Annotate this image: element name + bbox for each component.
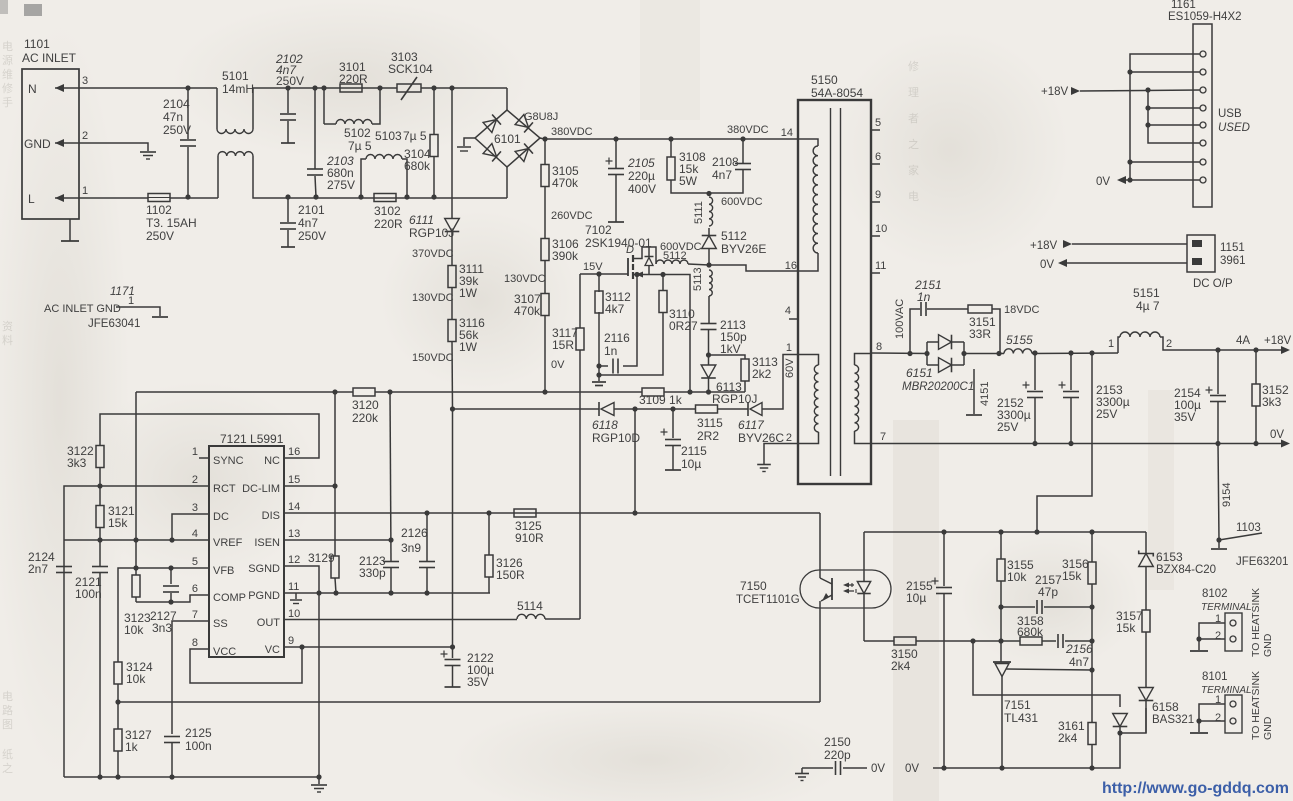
svg-text:4: 4: [785, 305, 791, 317]
core lines: [830, 108, 832, 476]
svg-text:2: 2: [786, 432, 792, 444]
capacitor 2150 220p: [802, 767, 833, 769]
svg-text:路: 路: [2, 704, 13, 717]
svg-text:10k: 10k: [124, 623, 144, 637]
svg-text:SYNC: SYNC: [213, 455, 244, 467]
svg-text:DC-LIM: DC-LIM: [242, 483, 280, 495]
inductor 5151 4u7: [1118, 337, 1120, 353]
svg-text:VFB: VFB: [213, 565, 234, 577]
svg-text:5112: 5112: [663, 250, 687, 262]
svg-text:0V: 0V: [1270, 429, 1284, 441]
svg-text:12: 12: [288, 554, 300, 566]
svg-text:14: 14: [781, 127, 793, 139]
pin stubs 5 6 9 10 11: [871, 129, 880, 131]
capacitor 2154 100u 35V: [1215, 347, 1220, 352]
svg-text:220p: 220p: [824, 748, 851, 762]
resistor 3123 10k: [132, 575, 140, 597]
resistor 3161 2k4: [1088, 723, 1096, 745]
resistor 3156 15k: [1091, 532, 1093, 562]
resistor 3150 2k4: [864, 640, 894, 642]
diode 6118 RGP10D: [598, 402, 600, 416]
svg-text:15: 15: [288, 474, 300, 486]
svg-text:10µ: 10µ: [681, 457, 701, 471]
svg-text:TERMINAL: TERMINAL: [1201, 602, 1252, 613]
wire secondary 0V rail: [933, 733, 1120, 768]
wire 380VDC rail: [540, 138, 798, 139]
capacitor 2153 3300u 25V: [1068, 350, 1073, 355]
svg-text:1: 1: [786, 342, 792, 354]
resistor 3125 910R: [514, 509, 536, 517]
svg-text:7102: 7102: [585, 223, 612, 237]
svg-text:2k2: 2k2: [752, 367, 772, 381]
jumper 4151 ground: [973, 369, 975, 414]
resistor 3115 2R2: [673, 408, 696, 410]
connection 1103 JFE63201: [1219, 533, 1262, 540]
wire usb pins 4 5 6: [1148, 90, 1200, 143]
svg-text:BAS321: BAS321: [1152, 714, 1194, 726]
svg-text:910R: 910R: [515, 531, 544, 545]
VDR 3103 SCK104: [397, 84, 421, 92]
svg-text:100VAC: 100VAC: [894, 299, 906, 339]
opto light arrows: [846, 584, 854, 586]
svg-text:者: 者: [908, 112, 919, 125]
svg-text:100n: 100n: [185, 739, 212, 753]
svg-text:6: 6: [875, 151, 881, 163]
capacitor 2121 100n: [99, 540, 101, 566]
svg-text:1: 1: [1108, 338, 1114, 350]
wire 0V rail: [871, 443, 1284, 445]
svg-text:6111: 6111: [409, 213, 434, 227]
svg-text:2n7: 2n7: [28, 562, 48, 576]
capacitor 2126 3n9: [426, 513, 428, 561]
resistor 3157 15k: [1142, 610, 1150, 632]
svg-text:2: 2: [192, 474, 198, 486]
svg-text:2156: 2156: [1065, 642, 1093, 656]
svg-text:L: L: [28, 192, 35, 206]
svg-text:2108: 2108: [712, 155, 739, 169]
svg-text:2101: 2101: [298, 203, 325, 217]
op-amp U7121 L5991 controller IC: [209, 446, 284, 657]
svg-text:7151: 7151: [1004, 698, 1031, 712]
resistor 3113 2k2: [709, 355, 746, 359]
svg-text:之: 之: [2, 761, 13, 775]
svg-text:4n7: 4n7: [298, 216, 318, 230]
wire usb pin2: [1130, 71, 1200, 73]
svg-text:9154: 9154: [1221, 483, 1233, 507]
svg-text:SGND: SGND: [248, 563, 280, 575]
wire DIS pin14: [284, 512, 820, 514]
svg-text:14mH: 14mH: [222, 82, 254, 96]
svg-text:+18V: +18V: [1264, 335, 1292, 347]
svg-text:6117: 6117: [738, 418, 765, 432]
svg-text:TCET1101G: TCET1101G: [736, 594, 800, 606]
resistor 3116 56k 1W: [448, 320, 456, 342]
resistor 3104 680k: [431, 85, 436, 90]
svg-text:纸: 纸: [2, 748, 13, 761]
capacitor 2155 10u: [943, 532, 945, 586]
aux winding pin1-2: [798, 355, 819, 366]
capacitor 2116 1n: [596, 363, 601, 368]
ground at bridge left: [464, 138, 475, 146]
svg-text:3102: 3102: [374, 204, 401, 218]
resistor 3107 470k: [541, 294, 549, 316]
pin 4 stub: [789, 318, 798, 320]
diode 6158 BAS321: [1139, 688, 1154, 701]
svg-text:T3. 15AH: T3. 15AH: [146, 216, 197, 230]
resistor 3108 15k 5W: [668, 136, 673, 141]
ground at 2150: [801, 768, 803, 773]
wire VCC pin8 loop: [190, 647, 302, 683]
svg-text:JFE63201: JFE63201: [1236, 556, 1288, 568]
node drain junction: [706, 262, 711, 267]
transformer 5150 54A-8054: [798, 100, 871, 484]
svg-text:BZX84-C20: BZX84-C20: [1156, 564, 1216, 576]
svg-text:35V: 35V: [467, 675, 488, 689]
svg-text:2R2: 2R2: [697, 429, 719, 443]
svg-text:7150: 7150: [740, 579, 767, 593]
wire to 5155: [964, 353, 1004, 355]
svg-text:1: 1: [128, 295, 134, 307]
svg-text:D: D: [626, 244, 634, 256]
inductor 5103 7u5: [358, 194, 363, 199]
svg-text:1: 1: [192, 446, 198, 458]
resistor 3101 220R: [321, 85, 326, 90]
svg-text:1W: 1W: [459, 340, 478, 354]
svg-text:15k: 15k: [108, 516, 128, 530]
inductor 5155: [1004, 349, 1032, 354]
svg-text:1W: 1W: [459, 286, 478, 300]
wire ground line to optocoupler: [118, 701, 820, 703]
svg-text:http://www.go-gddq.com: http://www.go-gddq.com: [1102, 780, 1289, 797]
svg-text:3n9: 3n9: [401, 541, 421, 555]
svg-text:15V: 15V: [583, 261, 603, 273]
ground below 2116: [592, 381, 606, 383]
capacitor 2152 3300u 25V: [1032, 350, 1037, 355]
svg-text:0V: 0V: [551, 359, 565, 371]
capacitor 2124 2n7: [56, 566, 72, 568]
primary winding pin14-16: [798, 139, 818, 146]
svg-text:400V: 400V: [628, 182, 656, 196]
diode to 6158: [1113, 714, 1128, 727]
resistor 3124 10k: [114, 662, 122, 684]
svg-text:BYV26E: BYV26E: [721, 242, 766, 256]
svg-text:修: 修: [908, 59, 919, 73]
optocoupler 7150 TCET1101G: [800, 570, 891, 608]
svg-text:3115: 3115: [697, 416, 723, 430]
svg-text:5151: 5151: [1133, 286, 1160, 300]
svg-text:3n3: 3n3: [152, 621, 172, 635]
svg-text:5112: 5112: [721, 229, 747, 243]
svg-text:+18V: +18V: [1030, 240, 1058, 252]
wire DC pin3: [172, 514, 209, 540]
svg-text:DIS: DIS: [262, 510, 280, 522]
svg-text:250V: 250V: [298, 229, 326, 243]
svg-text:0R27: 0R27: [669, 319, 698, 333]
svg-text:250V: 250V: [276, 74, 304, 88]
svg-text:5: 5: [875, 117, 881, 129]
resistor 3151 33R: [968, 305, 992, 313]
svg-text:25V: 25V: [1096, 407, 1117, 421]
svg-text:600VDC: 600VDC: [721, 196, 763, 208]
wire VREF pin4: [64, 539, 209, 541]
svg-text:DC O/P: DC O/P: [1193, 278, 1233, 290]
svg-text:2104: 2104: [163, 97, 190, 111]
svg-text:DC: DC: [213, 511, 229, 523]
pin 2 GND: [55, 142, 79, 144]
svg-text:1103: 1103: [1236, 522, 1261, 534]
svg-text:4µ 7: 4µ 7: [1136, 299, 1160, 313]
svg-text:10k: 10k: [126, 672, 146, 686]
svg-text:1151: 1151: [1220, 242, 1245, 254]
wire usb pin7: [1130, 161, 1200, 163]
svg-text:USED: USED: [1218, 122, 1250, 134]
svg-text:修: 修: [2, 81, 13, 95]
svg-text:130VDC: 130VDC: [412, 292, 454, 304]
resistor 3110 0R27: [660, 272, 665, 277]
capacitor 2101 4n7: [285, 194, 290, 199]
fuse 1102 T3.15AH: [148, 194, 170, 202]
svg-text:资: 资: [2, 320, 13, 333]
pin 1 L: [55, 197, 86, 199]
diode 6117 BYV26C: [717, 408, 748, 410]
svg-text:JFE63041: JFE63041: [88, 318, 140, 330]
svg-text:47p: 47p: [1038, 585, 1058, 599]
svg-text:16: 16: [288, 446, 300, 458]
svg-text:0V: 0V: [1040, 259, 1054, 271]
TL431 7151: [993, 661, 1011, 663]
svg-text:60V: 60V: [784, 358, 796, 378]
svg-text:3k3: 3k3: [1262, 395, 1282, 409]
wire COMP pin6: [136, 595, 209, 602]
svg-text:15k: 15k: [1062, 569, 1082, 583]
diode 6113 RGP10J: [701, 365, 716, 378]
svg-text:9: 9: [875, 189, 881, 201]
capacitor 2115 10u: [672, 409, 674, 438]
svg-text:2k4: 2k4: [1058, 731, 1078, 745]
svg-text:电: 电: [908, 190, 919, 203]
svg-text:220R: 220R: [339, 72, 368, 86]
wire VC pin9: [284, 646, 453, 648]
svg-text:6158: 6158: [1152, 700, 1179, 714]
resistor 3106 390k: [541, 239, 549, 261]
opto transistor side: [819, 513, 821, 578]
svg-text:SS: SS: [213, 618, 228, 630]
svg-text:7: 7: [880, 431, 886, 443]
svg-text:470k: 470k: [514, 304, 541, 318]
svg-text:4n7: 4n7: [712, 168, 732, 182]
wire x453 vertical: [452, 409, 454, 647]
svg-text:5114: 5114: [517, 599, 543, 613]
capacitor 2103 680n: [312, 85, 317, 90]
svg-text:5111: 5111: [693, 201, 705, 224]
svg-text:18VDC: 18VDC: [1004, 304, 1040, 316]
svg-text:GND: GND: [1262, 633, 1274, 657]
capacitor 2102 4n7: [285, 85, 290, 90]
connector 1101 AC INLET: [22, 69, 79, 219]
svg-text:220R: 220R: [374, 217, 403, 231]
wire pin8 100VAC line: [871, 352, 927, 355]
resistor 3122 3k3: [96, 446, 104, 468]
svg-text:TO HEATSINK: TO HEATSINK: [1250, 588, 1262, 657]
svg-text:GND: GND: [24, 137, 51, 151]
wire VFB pin5: [118, 568, 209, 662]
svg-text:11: 11: [288, 581, 299, 593]
svg-text:5103: 5103: [375, 129, 402, 143]
svg-text:3129: 3129: [308, 551, 335, 565]
svg-text:OUT: OUT: [257, 617, 281, 629]
svg-text:8102: 8102: [1202, 588, 1228, 600]
wire 6118 junction to DIS: [634, 409, 636, 513]
resistor 3158 680k: [1020, 637, 1042, 645]
ground: [140, 151, 156, 153]
svg-text:2: 2: [82, 130, 88, 142]
svg-text:35V: 35V: [1174, 410, 1195, 424]
svg-text:TL431: TL431: [1004, 711, 1038, 725]
svg-text:3109 1k: 3109 1k: [639, 393, 683, 407]
svg-text:5155: 5155: [1006, 333, 1033, 347]
svg-text:4k7: 4k7: [605, 302, 625, 316]
wire x335 vertical: [334, 392, 336, 556]
svg-text:6151: 6151: [906, 366, 933, 380]
wire TL431 ref: [1006, 669, 1092, 670]
svg-text:0V: 0V: [1096, 176, 1110, 188]
svg-text:370VDC: 370VDC: [412, 248, 454, 260]
ground bottom rail: [311, 784, 327, 786]
svg-text:2150: 2150: [824, 735, 851, 749]
svg-text:3k3: 3k3: [67, 456, 87, 470]
zener 6153 BZX84-C20: [1145, 532, 1147, 554]
svg-text:3120: 3120: [352, 398, 379, 412]
resistor 3152 3k3: [1253, 347, 1258, 352]
resistor 3121 15k: [99, 486, 101, 506]
svg-text:150R: 150R: [496, 568, 525, 582]
svg-text:33R: 33R: [969, 327, 991, 341]
svg-text:10: 10: [875, 223, 887, 235]
svg-text:4n7: 4n7: [1069, 655, 1089, 669]
ground below AC inlet: [69, 219, 71, 241]
svg-text:2105: 2105: [627, 156, 655, 170]
node 600VDC: [706, 191, 711, 196]
svg-text:电: 电: [2, 690, 13, 703]
svg-text:130VDC: 130VDC: [504, 273, 546, 285]
svg-text:330p: 330p: [359, 566, 386, 580]
svg-text:0V: 0V: [905, 763, 919, 775]
svg-text:2: 2: [1166, 338, 1172, 350]
resistor 3155 10k: [1000, 532, 1002, 559]
svg-text:4: 4: [192, 528, 198, 540]
capacitor 2123 330p: [390, 392, 391, 561]
inductor 5113: [709, 270, 712, 296]
svg-text:RGP10J: RGP10J: [712, 392, 757, 406]
resistor 3120 220k: [353, 388, 375, 396]
wire OUT pin10: [284, 619, 517, 621]
svg-text:ISEN: ISEN: [254, 537, 280, 549]
secondary winding pin8-7: [855, 354, 872, 366]
svg-text:6153: 6153: [1156, 550, 1183, 564]
jumper 9154: [1218, 444, 1219, 541]
svg-text:6: 6: [192, 583, 198, 595]
svg-text:680k: 680k: [1017, 625, 1044, 639]
svg-text:5102: 5102: [344, 126, 371, 140]
svg-text:2125: 2125: [185, 726, 212, 740]
inductor 5114: [517, 614, 545, 619]
resistor 3117 15R: [579, 274, 581, 328]
svg-text:COMP: COMP: [213, 592, 246, 604]
svg-text:1: 1: [82, 185, 88, 197]
capacitor 2127 3n3: [170, 568, 172, 584]
svg-text:VC: VC: [265, 644, 280, 656]
inductor 5112 drain: [656, 260, 688, 264]
svg-text:PGND: PGND: [248, 590, 280, 602]
svg-text:250V: 250V: [146, 229, 174, 243]
svg-text:源: 源: [2, 53, 13, 67]
svg-text:470k: 470k: [552, 176, 579, 190]
wire ISEN pin13: [284, 539, 391, 541]
opto LED: [863, 532, 865, 581]
wire N line: [86, 87, 217, 89]
svg-text:7: 7: [192, 609, 198, 621]
svg-text:手: 手: [2, 95, 13, 109]
svg-text:MBR20200C1: MBR20200C1: [902, 381, 974, 393]
pin 2 ground: [764, 444, 798, 465]
svg-text:54A-8054: 54A-8054: [811, 86, 863, 100]
resistor 3112 4k7: [598, 274, 600, 292]
svg-text:5: 5: [192, 556, 198, 568]
svg-text:390k: 390k: [552, 249, 579, 263]
svg-text:9: 9: [288, 635, 294, 647]
diode bridge 6101 G8U8J: [506, 88, 508, 110]
svg-text:4151: 4151: [979, 382, 991, 406]
capacitor 2105 220u 400V: [613, 136, 618, 141]
svg-text:15R: 15R: [552, 338, 574, 352]
svg-text:8: 8: [192, 637, 198, 649]
wire bottom ground rail: [64, 777, 319, 784]
svg-text:380VDC: 380VDC: [727, 124, 769, 136]
svg-text:+18V: +18V: [1041, 86, 1069, 98]
resistor 3126 150R: [488, 513, 490, 555]
svg-text:RCT: RCT: [213, 483, 236, 495]
svg-text:3: 3: [82, 75, 88, 87]
wire to pin 16: [709, 265, 798, 271]
svg-text:2: 2: [1215, 630, 1221, 642]
svg-text:4A: 4A: [1236, 335, 1250, 347]
svg-text:VCC: VCC: [213, 646, 236, 658]
resistor 3109 1k: [642, 388, 664, 396]
capacitor 2125 100n: [164, 736, 180, 738]
svg-text:7µ 5: 7µ 5: [348, 139, 372, 153]
svg-text:380VDC: 380VDC: [551, 126, 593, 138]
svg-text:25V: 25V: [997, 420, 1018, 434]
svg-text:8101: 8101: [1202, 671, 1228, 683]
svg-text:2126: 2126: [401, 526, 428, 540]
svg-text:TO HEATSINK: TO HEATSINK: [1250, 671, 1262, 740]
svg-text:15k: 15k: [1116, 621, 1136, 635]
svg-text:2115: 2115: [681, 444, 707, 458]
svg-text:3: 3: [192, 502, 198, 514]
svg-text:GND: GND: [1262, 716, 1274, 740]
wire DC-LIM pin15: [284, 485, 335, 487]
wire rail-to-VREF vertical x136: [135, 392, 137, 575]
svg-text:RGP10J: RGP10J: [409, 226, 454, 240]
svg-text:260VDC: 260VDC: [551, 210, 593, 222]
diode 5112 BYV26E: [708, 228, 710, 235]
wire L line: [86, 197, 148, 199]
+18V output arrow: [1281, 346, 1290, 354]
svg-text:5150: 5150: [811, 73, 838, 87]
wire source to ground rail: [663, 275, 690, 393]
inductor 5102 7u5: [377, 85, 382, 90]
svg-text:10µ: 10µ: [906, 591, 926, 605]
